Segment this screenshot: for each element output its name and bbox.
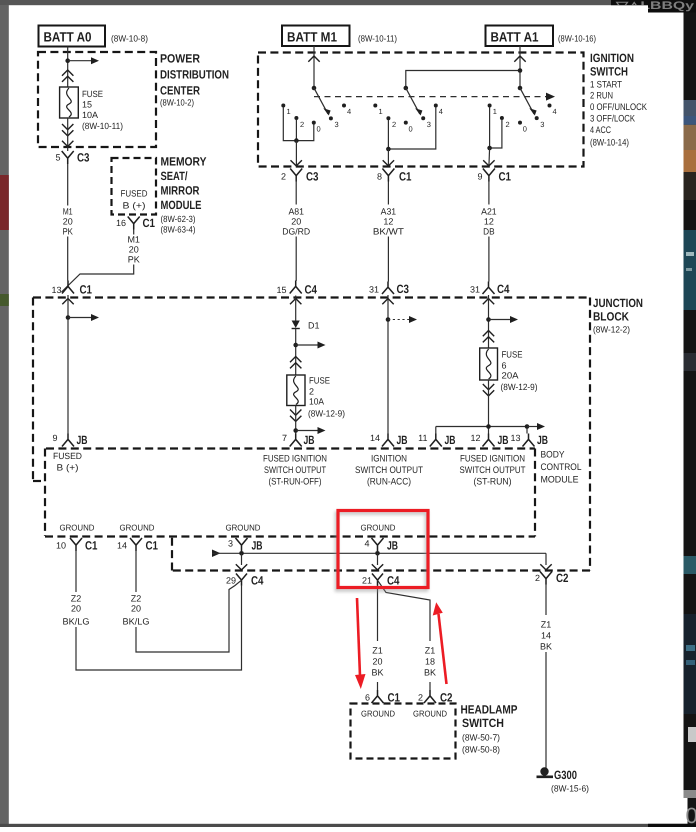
wire A81 20 DG/RD xyxy=(295,182,297,282)
headlamp switch box xyxy=(351,704,456,759)
node 12 JB bus xyxy=(486,424,491,429)
svg-text:(8W-12-9): (8W-12-9) xyxy=(501,382,538,392)
pole 3 output node xyxy=(487,146,492,151)
label FUSE 2 10A (8W-12-9) xyxy=(308,376,345,419)
svg-text:12: 12 xyxy=(470,433,480,443)
svg-text:Z1: Z1 xyxy=(425,646,436,656)
svg-text:0: 0 xyxy=(686,803,696,827)
svg-text:4: 4 xyxy=(347,107,351,116)
exit arrow to 2 C3 xyxy=(291,160,302,166)
svg-text:SWITCH OUTPUT: SWITCH OUTPUT xyxy=(460,465,526,476)
svg-text:IGNITION: IGNITION xyxy=(590,51,634,65)
mechanical link dashed xyxy=(314,93,555,101)
connector pin 21 C4 xyxy=(362,574,400,588)
svg-text:CENTER: CENTER xyxy=(160,84,200,98)
chevrons below fuse xyxy=(62,124,73,136)
label GROUND 2 C2 xyxy=(413,709,447,719)
label A21 12 DB xyxy=(481,207,497,237)
label (8W-10-8) xyxy=(111,34,148,44)
svg-text:CONTROL: CONTROL xyxy=(541,462,582,473)
label M1 20 PK xyxy=(62,207,73,237)
svg-text:C1: C1 xyxy=(399,170,412,184)
svg-text:(8W-12-9): (8W-12-9) xyxy=(308,409,345,419)
svg-text:(8W-10-16): (8W-10-16) xyxy=(558,34,596,44)
wire fuse to connector C3 xyxy=(67,118,69,151)
svg-text:FUSED IGNITION: FUSED IGNITION xyxy=(460,454,525,465)
svg-text:G300: G300 xyxy=(554,768,577,782)
fuse F2 10A xyxy=(287,375,305,406)
wire Z1 14 BK xyxy=(545,584,547,769)
svg-text:C2: C2 xyxy=(556,571,569,585)
label D1 xyxy=(308,321,320,331)
svg-text:20: 20 xyxy=(129,245,139,255)
wire 31 C3 to 14 JB xyxy=(387,295,389,434)
svg-text:C1: C1 xyxy=(146,539,159,553)
chevrons below fuse 2 xyxy=(290,410,301,422)
svg-text:GROUND: GROUND xyxy=(60,523,95,533)
label POWER DISTRIBUTION CENTER xyxy=(160,52,229,108)
connector pin 31 C4 xyxy=(470,282,510,297)
wire A21 12 DB xyxy=(488,182,490,282)
label GROUND 4 JB xyxy=(361,523,396,533)
svg-text:2 RUN: 2 RUN xyxy=(590,91,613,102)
svg-text:(8W-63-4): (8W-63-4) xyxy=(161,225,196,235)
pole 3 contact 2 xyxy=(500,116,510,129)
svg-text:C1: C1 xyxy=(143,216,156,230)
connector pin 29 C4 xyxy=(226,574,264,588)
svg-text:POWER: POWER xyxy=(160,52,200,66)
svg-text:14: 14 xyxy=(117,541,127,551)
node above fuse 6 xyxy=(486,317,491,322)
chevrons above fuse 6 xyxy=(483,331,494,343)
svg-text:(8W-50-7): (8W-50-7) xyxy=(462,733,500,743)
chevrons below fuse 6 xyxy=(483,384,494,396)
svg-text:4: 4 xyxy=(439,107,443,116)
svg-text:C3: C3 xyxy=(397,282,410,296)
svg-text:GROUND: GROUND xyxy=(413,709,447,719)
svg-text:3: 3 xyxy=(228,539,233,549)
svg-text:31: 31 xyxy=(470,285,480,295)
switch blade pole 1 xyxy=(314,88,331,116)
svg-text:9: 9 xyxy=(477,172,482,182)
svg-text:2: 2 xyxy=(309,387,314,397)
svg-text:20: 20 xyxy=(63,217,73,227)
svg-text:BATT M1: BATT M1 xyxy=(287,30,337,45)
connector pin 9 JB xyxy=(52,433,87,447)
wire diode to fuse 2 xyxy=(295,329,297,376)
entry arrow below 31 C4 xyxy=(483,299,494,305)
label M1 20 PK module wire xyxy=(127,235,140,265)
svg-text:C4: C4 xyxy=(305,283,318,297)
label A81 20 DG/RD xyxy=(282,207,310,237)
connector pin 10 C1 xyxy=(56,538,98,553)
svg-text:15: 15 xyxy=(276,285,286,295)
svg-text:FUSED IGNITION: FUSED IGNITION xyxy=(263,454,327,465)
switch blade pole 3 xyxy=(520,88,537,116)
svg-text:4 ACC: 4 ACC xyxy=(590,125,611,136)
svg-text:Z2: Z2 xyxy=(131,594,142,604)
svg-text:13: 13 xyxy=(51,285,61,295)
svg-text:12: 12 xyxy=(383,217,393,227)
svg-text:0: 0 xyxy=(409,125,413,134)
branch arrow right above fuse 6 xyxy=(489,316,519,323)
svg-text:JB: JB xyxy=(498,433,509,447)
svg-text:Z1: Z1 xyxy=(372,646,383,656)
wire BATT M1 into switch xyxy=(313,46,315,88)
svg-text:(8W-10-2): (8W-10-2) xyxy=(160,98,194,108)
pole 2 contact 0 xyxy=(404,121,413,134)
svg-text:2: 2 xyxy=(300,120,304,129)
svg-text:12: 12 xyxy=(484,217,494,227)
svg-text:(8W-10-14): (8W-10-14) xyxy=(590,138,629,149)
svg-text:JB: JB xyxy=(397,433,408,447)
label FUSED IGNITION SWITCH OUTPUT (ST-RUN) xyxy=(460,454,526,488)
svg-text:3 OFF/LOCK: 3 OFF/LOCK xyxy=(590,114,636,125)
svg-text:SWITCH: SWITCH xyxy=(462,716,504,730)
pole 3 contact 1 xyxy=(488,104,497,117)
wire 15 C4 to diode xyxy=(295,296,297,322)
svg-text:6: 6 xyxy=(502,361,507,371)
svg-text:16: 16 xyxy=(116,218,126,228)
connector pin 7 JB xyxy=(282,433,315,447)
pole 1 output node xyxy=(294,138,299,143)
svg-text:MEMORY: MEMORY xyxy=(161,155,207,169)
svg-text:6: 6 xyxy=(365,693,370,703)
svg-text:FUSE: FUSE xyxy=(82,89,103,99)
pole 2 contact 2 xyxy=(386,116,396,129)
svg-text:C1: C1 xyxy=(80,283,93,297)
label Z2 20 BK/LG left xyxy=(63,594,90,627)
svg-text:1: 1 xyxy=(379,107,383,116)
exit arrow at PDC bottom xyxy=(62,141,73,147)
svg-text:SWITCH OUTPUT: SWITCH OUTPUT xyxy=(355,465,423,476)
svg-text:C1: C1 xyxy=(499,170,512,184)
label BODY CONTROL MODULE xyxy=(541,450,582,486)
node 3 JB on bus xyxy=(239,551,244,556)
label (8W-10-16) xyxy=(558,34,596,44)
battery feed box BATT M1 xyxy=(282,26,350,47)
branch arrow right from fused B+ xyxy=(68,314,99,321)
connector pin 2 C2 bottom xyxy=(418,690,453,705)
wire M1 20 PK from module xyxy=(62,230,134,293)
connector pin 14 JB xyxy=(370,433,408,447)
svg-text:D1: D1 xyxy=(308,321,320,331)
connector pin 31 C3 xyxy=(369,282,409,297)
pole 2 contact 4 xyxy=(434,104,443,117)
ground G300 xyxy=(537,767,554,777)
svg-text:PK: PK xyxy=(128,255,140,265)
svg-text:JB: JB xyxy=(77,433,88,447)
red arrow down xyxy=(355,598,366,689)
pole 1 contact 0 xyxy=(312,121,321,134)
svg-text:(8W-62-3): (8W-62-3) xyxy=(161,214,196,224)
label MEMORY SEAT/MIRROR MODULE xyxy=(161,155,207,235)
arrow into switch pole 3 xyxy=(514,56,525,62)
svg-text:20: 20 xyxy=(372,657,382,667)
svg-text:(8W-10-8): (8W-10-8) xyxy=(111,34,148,44)
fuse F15 10A xyxy=(60,87,79,118)
pole 2 contact 3 xyxy=(421,116,431,129)
connector pin 11 JB xyxy=(418,433,456,447)
svg-text:0: 0 xyxy=(317,125,321,134)
label Z1 14 BK xyxy=(540,620,552,652)
wire fuse 6 to 12 JB xyxy=(488,380,490,434)
node on fused B+ wire xyxy=(66,315,71,320)
svg-text:GROUND: GROUND xyxy=(226,523,261,533)
connector pin 12 JB xyxy=(470,433,508,447)
svg-text:15: 15 xyxy=(82,100,92,110)
drop to 29 C4 xyxy=(236,553,247,570)
ignition switch box xyxy=(258,53,584,167)
label FUSED IGNITION SWITCH OUTPUT (ST-RUN-OFF) xyxy=(263,454,327,488)
svg-text:14: 14 xyxy=(370,433,380,443)
bus to 11 12 13 JB xyxy=(436,427,527,434)
connector pin 5 C3 xyxy=(55,151,89,165)
pole 2 output node xyxy=(386,147,391,152)
exit arrow to 2 C2 xyxy=(540,564,551,570)
svg-text:C4: C4 xyxy=(387,574,400,588)
svg-text:JB: JB xyxy=(445,433,456,447)
label (8W-10-11) top xyxy=(358,34,397,44)
node BATT A1 branch xyxy=(518,68,523,73)
connector pin 13 C1 xyxy=(51,281,92,297)
branch arrow right xyxy=(68,57,99,64)
exit arrow to 9 C1 xyxy=(483,160,494,166)
svg-text:GROUND: GROUND xyxy=(361,709,395,719)
svg-text:7: 7 xyxy=(282,433,287,443)
svg-text:BLOCK: BLOCK xyxy=(593,310,629,324)
svg-text:FUSE: FUSE xyxy=(502,350,523,360)
switch pole 3 pivot xyxy=(518,86,523,91)
svg-text:(8W-10-11): (8W-10-11) xyxy=(82,121,123,131)
entry arrow below 31 C3 xyxy=(382,299,393,305)
svg-text:BATT A0: BATT A0 xyxy=(44,30,92,45)
battery feed box BATT A1 xyxy=(486,26,554,47)
svg-text:20A: 20A xyxy=(502,371,519,381)
node after diode xyxy=(293,343,298,348)
svg-text:20: 20 xyxy=(291,217,301,227)
svg-text:20: 20 xyxy=(71,604,81,614)
svg-text:B (+): B (+) xyxy=(57,463,79,473)
svg-text:4: 4 xyxy=(364,539,369,549)
label FUSE 6 20A (8W-12-9) xyxy=(501,350,538,393)
svg-text:PK: PK xyxy=(62,227,73,237)
svg-text:29: 29 xyxy=(226,576,236,586)
switch pole 1 pivot xyxy=(312,86,317,91)
pole 2 contact 1 xyxy=(373,104,382,117)
wire Z1 20 BK xyxy=(377,585,379,690)
branch arrow right at 7 JB xyxy=(296,427,326,434)
node above 7 JB xyxy=(293,428,298,433)
svg-text:SWITCH: SWITCH xyxy=(590,65,628,79)
switch blade pole 2 xyxy=(406,88,423,116)
chevrons above fuse 2 xyxy=(290,357,301,369)
label IGNITION SWITCH legend xyxy=(590,51,648,149)
fuse F6 20A xyxy=(480,348,498,380)
connector pin 6 C1 xyxy=(365,690,400,705)
svg-text:JB: JB xyxy=(304,433,315,447)
connector pin 2 C2 top xyxy=(535,571,569,585)
svg-text:(8W-12-2): (8W-12-2) xyxy=(593,325,630,335)
svg-text:BATT A1: BATT A1 xyxy=(491,30,539,45)
svg-text:9: 9 xyxy=(52,433,57,443)
svg-text:MIRROR: MIRROR xyxy=(161,184,200,198)
svg-text:FUSED: FUSED xyxy=(53,451,82,461)
svg-text:(ST-RUN-OFF): (ST-RUN-OFF) xyxy=(269,477,322,488)
svg-text:JB: JB xyxy=(387,539,398,553)
entry arrow below 13 C1 xyxy=(62,299,73,305)
svg-text:Z2: Z2 xyxy=(71,594,82,604)
red arrow up xyxy=(433,602,447,684)
svg-text:2: 2 xyxy=(506,120,510,129)
svg-text:C4: C4 xyxy=(497,282,510,296)
node 13 JB bus xyxy=(525,424,530,429)
svg-text:JUNCTION: JUNCTION xyxy=(593,296,643,310)
svg-text:0: 0 xyxy=(523,125,527,134)
label GROUND 10 C1 xyxy=(60,523,95,533)
label GROUND 3 JB xyxy=(226,523,261,533)
svg-text:MODULE: MODULE xyxy=(541,475,579,486)
connector pin 14 C1 xyxy=(117,538,158,553)
ground bus wire xyxy=(212,550,546,565)
svg-text:2: 2 xyxy=(392,120,396,129)
node 4 JB on bus xyxy=(375,551,380,556)
svg-text:(8W-15-6): (8W-15-6) xyxy=(551,784,589,794)
connector pin 15 C4 xyxy=(276,281,317,297)
svg-text:1: 1 xyxy=(287,107,291,116)
svg-text:GROUND: GROUND xyxy=(120,523,155,533)
pole 1 contact 3 xyxy=(329,116,339,129)
label Z1 20 BK xyxy=(371,646,383,678)
svg-text:DISTRIBUTION: DISTRIBUTION xyxy=(160,68,229,82)
power distribution center box xyxy=(38,52,156,147)
svg-text:IGNITION: IGNITION xyxy=(371,454,407,465)
connector pin 16 C1 xyxy=(116,216,155,230)
label A31 12 BK/WT xyxy=(373,207,405,237)
svg-text:FUSED: FUSED xyxy=(121,189,148,199)
svg-text:SWITCH OUTPUT: SWITCH OUTPUT xyxy=(264,465,326,476)
svg-text:C4: C4 xyxy=(251,574,264,588)
node at PDC feed xyxy=(65,58,70,63)
svg-text:3: 3 xyxy=(335,120,339,129)
svg-text:3: 3 xyxy=(540,120,544,129)
wire BATT A0 to fuse xyxy=(67,47,69,88)
svg-text:10: 10 xyxy=(56,541,66,551)
arrow into switch pole 1 xyxy=(308,56,319,62)
pole 1 contact 1 xyxy=(281,104,290,117)
junction block box xyxy=(33,298,590,571)
svg-text:BK: BK xyxy=(424,668,436,678)
svg-text:GROUND: GROUND xyxy=(361,523,396,533)
svg-text:BODY: BODY xyxy=(541,450,566,461)
pole 2 contact tie wires xyxy=(388,108,435,150)
svg-text:C3: C3 xyxy=(306,170,319,184)
pole 1 contact 2 xyxy=(294,116,304,129)
svg-text:BK/LG: BK/LG xyxy=(123,617,150,627)
svg-text:10A: 10A xyxy=(82,110,98,120)
svg-text:2: 2 xyxy=(281,172,286,182)
node on run-acc wire xyxy=(386,317,391,322)
svg-text:A81: A81 xyxy=(288,207,304,217)
entry arrow below 15 C4 xyxy=(290,299,301,305)
svg-text:FUSE: FUSE xyxy=(309,376,330,386)
dotted branch arrow right xyxy=(388,316,417,323)
svg-text:BK: BK xyxy=(371,668,383,678)
pole 3 output wire xyxy=(488,148,491,167)
connector pin 8 C1 xyxy=(377,169,412,184)
connector pin 4 JB xyxy=(364,538,398,553)
battery feed box BATT A0 xyxy=(39,26,106,47)
svg-text:SEAT/: SEAT/ xyxy=(161,169,189,183)
svg-text:3: 3 xyxy=(427,120,431,129)
wire 13 C1 to 9 JB xyxy=(67,295,69,434)
diode D1 xyxy=(292,321,300,329)
svg-text:21: 21 xyxy=(362,576,372,586)
svg-text:C1: C1 xyxy=(85,539,98,553)
svg-text:18: 18 xyxy=(425,657,435,667)
switch pole 2 pivot xyxy=(404,86,409,91)
svg-text:1 START: 1 START xyxy=(590,80,622,91)
label HEADLAMP SWITCH xyxy=(461,703,518,755)
connector pin 3 JB xyxy=(228,538,263,553)
svg-text:(8W-50-8): (8W-50-8) xyxy=(462,745,500,755)
pole 3 contact 0 xyxy=(518,121,527,134)
pole 2 output wire xyxy=(387,149,389,167)
connector pin 9 C1 xyxy=(477,169,511,184)
svg-text:20: 20 xyxy=(131,604,141,614)
exit arrow to 8 C1 xyxy=(383,160,394,166)
svg-text:BK/WT: BK/WT xyxy=(373,227,405,237)
svg-text:4: 4 xyxy=(553,107,557,116)
label FUSED B(+) xyxy=(53,451,82,473)
pole 1 contact tie wires xyxy=(283,108,314,141)
wire 31 C4 to fuse 6 xyxy=(488,295,490,348)
svg-text:DB: DB xyxy=(483,227,495,237)
branch arrow right after diode xyxy=(296,342,326,349)
svg-text:11: 11 xyxy=(418,433,427,443)
svg-text:M1: M1 xyxy=(127,235,140,245)
svg-text:5: 5 xyxy=(55,153,60,163)
svg-text:1: 1 xyxy=(493,107,497,116)
wire branch BATT A1 to pole 2 xyxy=(406,71,520,89)
svg-text:BK/LG: BK/LG xyxy=(63,617,90,627)
label G300 xyxy=(554,768,577,782)
wire BATT A1 into switch xyxy=(519,46,521,88)
svg-text:B (+): B (+) xyxy=(123,201,146,211)
label FUSED B(+) inside module xyxy=(121,189,148,211)
label Z1 18 BK xyxy=(424,646,436,678)
label Z2 20 BK/LG right xyxy=(123,594,150,627)
svg-text:(ST-RUN): (ST-RUN) xyxy=(474,477,512,488)
label FUSE 15 10A (8W-10-11) xyxy=(82,89,123,131)
label IGNITION SWITCH OUTPUT (RUN-ACC) xyxy=(355,454,423,488)
svg-text:0 OFF/UNLOCK: 0 OFF/UNLOCK xyxy=(590,102,648,113)
pole 1 contact 4 xyxy=(342,104,351,117)
svg-text:C3: C3 xyxy=(77,151,90,165)
svg-text:10A: 10A xyxy=(309,397,324,407)
wire Z1 18 BK xyxy=(378,580,431,690)
wire A31 12 BK/WT xyxy=(387,182,389,282)
wire fuse 2 to 7 JB xyxy=(295,406,297,434)
label JUNCTION BLOCK xyxy=(593,296,643,335)
svg-text:(RUN-ACC): (RUN-ACC) xyxy=(367,477,411,488)
svg-text:A31: A31 xyxy=(381,207,397,217)
svg-text:HEADLAMP: HEADLAMP xyxy=(461,703,518,717)
wire M1 20 PK upper xyxy=(67,164,69,281)
label (8W-15-6) xyxy=(551,784,589,794)
svg-text:JB: JB xyxy=(537,433,548,447)
svg-text:MODULE: MODULE xyxy=(161,198,202,212)
